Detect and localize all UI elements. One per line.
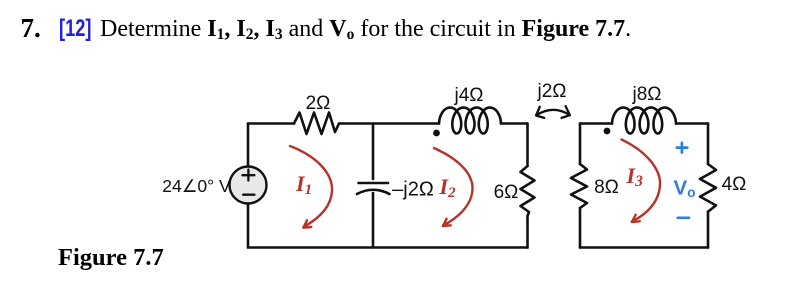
svg-text:4Ω: 4Ω [722, 174, 747, 195]
current arrow I1 [290, 146, 332, 227]
wire loop2 right vertical bottom [526, 216, 529, 248]
coupling dot right [604, 128, 611, 135]
svg-text:24∠0° V: 24∠0° V [162, 176, 231, 196]
svg-text:8Ω: 8Ω [594, 177, 619, 198]
title [21, 13, 41, 44]
wire coil to corner [501, 122, 528, 125]
loop3 top wire [580, 122, 612, 125]
current arrow I3 [622, 140, 661, 222]
loop3 left vertical top [579, 124, 582, 165]
wire top mid [339, 122, 439, 125]
resistor 8ohm [571, 164, 587, 208]
svg-text:I1: I1 [295, 171, 312, 198]
inductor j4ohm coil [439, 108, 501, 134]
capacitor -j2ohm plate1 [359, 182, 389, 185]
coupling dot left [433, 130, 440, 137]
svg-text:I2: I2 [439, 174, 457, 201]
capacitor bottom lead [372, 193, 375, 248]
capacitor -j2ohm plate2 [357, 190, 390, 194]
svg-text:6Ω: 6Ω [494, 182, 519, 203]
loop3 bottom wire [580, 246, 708, 249]
wire bottom loop1+2 [248, 246, 528, 249]
svg-text:j4Ω: j4Ω [454, 85, 484, 106]
inductor j8ohm coil [612, 108, 676, 134]
resistor 4ohm [700, 164, 716, 212]
node capacitor branch top [372, 124, 375, 180]
wire left vertical bottom [247, 204, 250, 248]
svg-text:Vo: Vo [674, 177, 696, 201]
svg-text:j8Ω: j8Ω [632, 84, 662, 105]
loop3 left vertical bottom [579, 208, 582, 248]
svg-text:–j2Ω: –j2Ω [392, 179, 434, 201]
svg-text:2Ω: 2Ω [306, 93, 331, 114]
label Vo plus [677, 143, 688, 153]
voltage source circle [230, 167, 267, 204]
svg-text:I3: I3 [626, 163, 644, 190]
resistor 6ohm [521, 166, 535, 216]
coupling arrow j2ohm [536, 110, 569, 115]
current arrow I2 [434, 148, 473, 226]
loop3 top right wire [676, 122, 708, 125]
loop3 right vertical top [707, 124, 710, 165]
resistor R 2ohm [294, 113, 339, 135]
figure caption [58, 244, 164, 272]
label Vo minus [678, 216, 689, 219]
wire left vertical top [247, 124, 250, 167]
loop3 right vertical bottom [707, 212, 710, 248]
vsource minus [243, 193, 254, 195]
wire top left [248, 122, 294, 125]
vsource plus [242, 170, 254, 181]
wire loop2 right vertical top [526, 124, 529, 167]
svg-text:j2Ω: j2Ω [537, 81, 567, 102]
